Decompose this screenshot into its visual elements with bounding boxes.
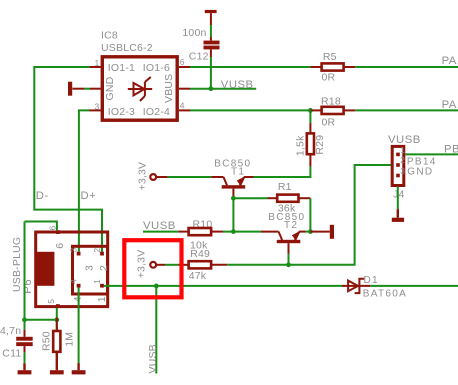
- svg-text:R50: R50: [41, 331, 53, 351]
- svg-text:4,7n: 4,7n: [0, 325, 21, 337]
- svg-text:T1: T1: [231, 167, 245, 178]
- svg-text:6: 6: [54, 243, 66, 249]
- svg-text:2: 2: [400, 155, 405, 165]
- junction T1 base / R1: [231, 196, 236, 201]
- resistor R50 1M vertical: [41, 330, 76, 371]
- capacitor C11 4,7n: [0, 325, 33, 370]
- svg-text:6: 6: [180, 57, 185, 67]
- svg-text:R5: R5: [323, 51, 337, 63]
- wire shield pin6: [25, 222, 57, 231]
- resistor R10 10k: [178, 219, 223, 252]
- resistor R50 top pin over junction: [56, 318, 58, 332]
- svg-text:VBUS: VBUS: [163, 74, 175, 103]
- svg-text:IO1-1: IO1-1: [108, 62, 135, 74]
- wire D- from IC8 pin1: [34, 67, 102, 252]
- svg-text:R18: R18: [321, 95, 341, 107]
- junction T1-base branch on R10 row: [231, 229, 236, 234]
- junction T2 base on PB14 net: [286, 262, 291, 267]
- wire D1 to right edge: [370, 285, 458, 287]
- ground below J4: [392, 209, 404, 222]
- wire R29 to T1 emitter row: [254, 166, 311, 177]
- junction R50: [54, 317, 59, 322]
- ground below C11: [18, 370, 32, 374]
- wire R18 to PA: [355, 109, 458, 111]
- junction R18/R29: [308, 108, 313, 113]
- svg-text:6: 6: [47, 226, 57, 231]
- svg-text:GND: GND: [407, 167, 433, 178]
- transistor T1 BC850: [211, 158, 253, 196]
- IC8: [90, 30, 191, 121]
- svg-text:+3,3V: +3,3V: [137, 162, 149, 191]
- svg-text:5: 5: [46, 299, 56, 304]
- diode D1 BAT60A: [342, 275, 407, 300]
- ground at IC8 GND pin (rotated): [68, 82, 90, 96]
- svg-text:C12: C12: [189, 50, 209, 62]
- wire VBUS row with VUSB label: [190, 79, 256, 91]
- svg-text:D1: D1: [364, 275, 379, 286]
- VUSB label net at R10: [143, 220, 178, 232]
- svg-text:2: 2: [98, 265, 110, 271]
- wire IC8 pin6 row to R5: [190, 66, 311, 68]
- svg-text:R1: R1: [278, 181, 292, 193]
- junction T2 emitter / R1 / GND: [308, 229, 313, 234]
- wire R10 to T2: [223, 231, 261, 233]
- connector J4: [388, 134, 437, 200]
- wire supply to C12: [210, 25, 212, 37]
- wire pin5 down: [56, 308, 58, 331]
- svg-text:VUSB: VUSB: [143, 220, 176, 232]
- wire junction down to R29: [309, 110, 311, 123]
- wire T2 emitter to junction: [306, 231, 311, 233]
- svg-text:47k: 47k: [189, 270, 207, 282]
- ground below R50: [50, 370, 64, 374]
- svg-text:1M: 1M: [63, 332, 75, 347]
- svg-text:IO2-3: IO2-3: [108, 106, 135, 118]
- capacitor C12: [182, 27, 219, 62]
- wire +3,3V to R49: [156, 264, 178, 266]
- svg-text:PA1: PA1: [442, 99, 458, 111]
- +3,3V supply at R49: [135, 250, 156, 279]
- svg-text:3: 3: [400, 166, 405, 176]
- svg-text:PB1: PB1: [444, 144, 458, 156]
- shell filled rect: [36, 252, 55, 286]
- wire VUSB vertical label: [155, 286, 157, 374]
- svg-text:0R: 0R: [322, 117, 336, 129]
- svg-text:IC8: IC8: [101, 30, 118, 42]
- outer box: [36, 232, 108, 307]
- highlight box around +3,3V: [124, 240, 181, 297]
- inner box: [73, 246, 108, 294]
- wire T1 base down to R10 row: [232, 196, 234, 231]
- ground below plug pin4: [72, 363, 86, 374]
- resistor R29 1.5k vertical: [295, 123, 327, 166]
- svg-text:1: 1: [400, 145, 405, 155]
- resistor R49 47k: [178, 248, 227, 282]
- wire R1 row: [233, 197, 267, 199]
- IC8 internal TVS diode: [128, 77, 152, 101]
- wire J4 bottom to ground: [397, 187, 399, 210]
- wire R5 to PA: [355, 66, 458, 68]
- wire IC8 pin4 row to R18: [190, 109, 310, 111]
- svg-text:3: 3: [84, 265, 96, 271]
- svg-text:VUSB: VUSB: [147, 344, 159, 373]
- wire shield left vertical: [24, 222, 26, 330]
- svg-text:1: 1: [96, 296, 108, 302]
- transistor T2 BC850: [261, 212, 306, 254]
- wire plug pin4 to ground: [78, 288, 80, 364]
- wire J4 pin1 to PB: [405, 153, 458, 155]
- svg-text:PA1: PA1: [442, 55, 458, 67]
- wire VUSB row from plug pin1 to D1: [104, 285, 342, 287]
- wire C12 to VBUS junction: [210, 57, 212, 89]
- svg-text:100n: 100n: [182, 27, 206, 39]
- svg-text:1,5k: 1,5k: [295, 135, 307, 156]
- svg-text:GND: GND: [104, 76, 116, 100]
- svg-text:2: 2: [92, 248, 102, 253]
- svg-text:R49: R49: [190, 248, 210, 260]
- wire D+ from IC8 pin3: [79, 110, 90, 251]
- svg-text:T2: T2: [284, 220, 298, 231]
- wire R1 right down to T2 emitter junction: [309, 198, 311, 231]
- svg-text:D-: D-: [36, 190, 49, 202]
- svg-text:IO1-6: IO1-6: [143, 62, 170, 74]
- svg-text:C11: C11: [2, 348, 21, 360]
- pin squares: [77, 252, 81, 256]
- svg-text:BAT60A: BAT60A: [363, 289, 407, 300]
- svg-text:VUSB: VUSB: [221, 79, 254, 91]
- junction shield RC: [22, 317, 27, 322]
- svg-text:1: 1: [92, 279, 102, 284]
- junction VUSB drop: [154, 284, 159, 289]
- wire +3,3V to T1: [156, 176, 211, 178]
- wire R49 to T2 base junction to J4 pin2: [227, 165, 391, 265]
- wire T2 base down: [288, 254, 290, 265]
- resistor R5: [311, 51, 356, 84]
- svg-text:+3,3V: +3,3V: [135, 250, 147, 279]
- supply symbol above C12: [205, 10, 217, 25]
- resistor R1 36k: [268, 181, 311, 215]
- resistor R18: [310, 95, 355, 128]
- IC8 pin stubs: [90, 67, 191, 110]
- wire junction to R50/pin5: [25, 319, 57, 321]
- svg-text:4: 4: [180, 100, 185, 110]
- +3,3V supply at T1: [137, 162, 157, 191]
- ground right of T2 (rotated): [310, 225, 334, 239]
- svg-text:IO2-4: IO2-4: [143, 106, 170, 118]
- svg-text:3: 3: [69, 248, 79, 253]
- USB plug P6: [11, 226, 110, 309]
- svg-text:0R: 0R: [322, 72, 336, 84]
- svg-text:D+: D+: [81, 190, 97, 202]
- svg-text:USBLC6-2: USBLC6-2: [101, 42, 153, 54]
- svg-text:4: 4: [69, 279, 79, 284]
- svg-text:R29: R29: [314, 135, 326, 155]
